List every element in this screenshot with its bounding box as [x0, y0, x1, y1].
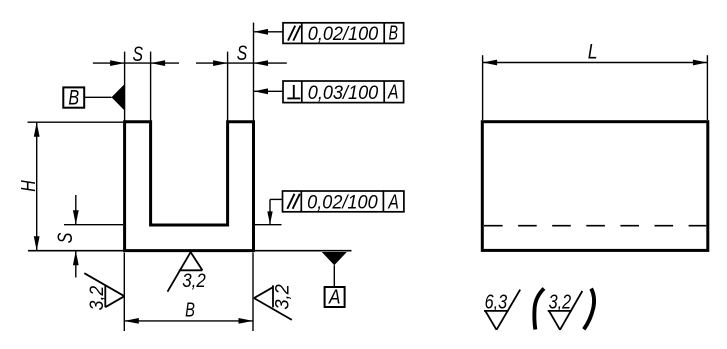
leader of perpendicularity frame A: [254, 88, 284, 94]
svg-text:0,02/100: 0,02/100: [307, 192, 378, 214]
svg-text:B: B: [68, 86, 79, 109]
extension line B left: [123, 253, 125, 332]
datum feature symbol A: [322, 252, 347, 309]
svg-text:3,2: 3,2: [272, 284, 294, 310]
dimension S bottom wall: [54, 195, 79, 278]
svg-text:B: B: [185, 299, 195, 322]
dimension B: [124, 299, 253, 324]
side view block outline: [482, 122, 708, 251]
svg-text:A: A: [387, 82, 398, 104]
surface finish 6,3 general: [484, 290, 520, 330]
svg-text:A: A: [327, 286, 340, 309]
extension line left-inner above: [150, 52, 152, 121]
U-block outline: [125, 122, 254, 251]
svg-text:3,2: 3,2: [549, 291, 572, 313]
dimension S left wall: [93, 42, 179, 66]
leader of parallelism frame A: [267, 199, 282, 224]
extension line right-outer above: [253, 23, 255, 121]
extension line H top: [28, 121, 124, 123]
surface finish 3,2 right face: [254, 284, 294, 320]
extension line slot bottom left: [64, 224, 123, 226]
svg-text:6,3: 6,3: [485, 291, 508, 313]
baseline with datum A: [28, 250, 352, 252]
extension line left-outer above: [124, 52, 126, 121]
extension line L right: [706, 55, 708, 120]
svg-text:S: S: [54, 233, 77, 244]
extension line L left: [482, 55, 484, 120]
svg-text:3,2: 3,2: [86, 286, 108, 311]
closing parenthesis: [584, 289, 594, 330]
opening parenthesis: [534, 289, 544, 330]
svg-text:L: L: [588, 41, 598, 64]
surface finish 3,2 bottom face: [168, 252, 206, 292]
svg-text:0,02/100: 0,02/100: [308, 23, 379, 45]
dimension H: [17, 122, 40, 251]
svg-text:A: A: [388, 192, 399, 214]
dimension S right wall: [196, 41, 287, 66]
hidden slot dashed line: [484, 225, 706, 227]
extension line B right: [252, 253, 254, 332]
svg-text:S: S: [237, 41, 248, 65]
surface finish 3,2 left face: [84, 273, 124, 310]
feature control frame parallelism 0,02/100 A: [283, 191, 404, 214]
svg-text:3,2: 3,2: [182, 270, 206, 292]
svg-text:0,03/100: 0,03/100: [308, 82, 379, 104]
svg-text:B: B: [388, 23, 398, 45]
feature control frame perpendicularity 0,03/100 A: [283, 81, 404, 104]
dimension L: [483, 41, 708, 66]
datum feature symbol B: [63, 84, 124, 110]
svg-text:S: S: [132, 42, 143, 66]
extension line slot bottom right: [255, 224, 282, 226]
svg-text:H: H: [17, 180, 40, 192]
extension line right-inner above: [227, 52, 229, 121]
surface finish 3,2 alternative: [548, 291, 583, 330]
feature control frame parallelism 0,02/100 B: [283, 23, 404, 45]
leader of parallelism frame B: [254, 29, 284, 35]
